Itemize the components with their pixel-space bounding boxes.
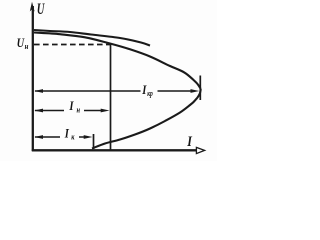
y-axis U <box>32 6 34 151</box>
label Un subscript <box>25 41 29 51</box>
label Un <box>17 36 25 50</box>
svg-text:I: I <box>186 133 192 150</box>
svg-text:U: U <box>37 0 46 17</box>
svg-text:к: к <box>71 133 75 142</box>
svg-text:н: н <box>25 41 29 51</box>
label I (x-axis) <box>186 133 192 150</box>
Ikr left arrowhead <box>34 89 43 93</box>
label Ikr <box>141 83 146 97</box>
label Ikr subscript <box>147 89 153 98</box>
In right arrowhead <box>101 109 110 113</box>
Ik left arrowhead <box>34 135 43 139</box>
svg-text:I: I <box>141 83 146 97</box>
label In subscript <box>77 106 81 115</box>
svg-text:I: I <box>64 127 69 141</box>
main curve lower branch returning to I axis <box>92 89 201 149</box>
label U (y-axis) <box>37 0 46 17</box>
short witness tick at Ik <box>93 134 95 149</box>
x-axis I <box>32 149 196 151</box>
upper curve (comparison characteristic) <box>34 30 150 46</box>
Ikr right arrowhead <box>191 89 200 93</box>
y-axis arrowhead <box>30 2 35 12</box>
Ikr dimension line <box>35 90 141 92</box>
svg-text:U: U <box>17 36 25 50</box>
dashed Un level line <box>34 44 111 46</box>
label In <box>68 99 73 113</box>
label Ik subscript <box>71 133 75 142</box>
x-axis open arrowhead <box>196 147 204 153</box>
svg-text:I: I <box>68 99 73 113</box>
Ik dimension line <box>35 136 60 138</box>
In left arrowhead <box>34 109 43 113</box>
Ik right arrowhead <box>84 135 93 139</box>
main curve upper branch (shunt generator external characteristic) <box>34 33 201 90</box>
vertical witness line at In <box>110 44 112 150</box>
label Ik <box>64 127 69 141</box>
svg-text:кр: кр <box>147 89 153 98</box>
nose witness bar at Ikr <box>199 76 201 101</box>
svg-text:н: н <box>77 106 81 115</box>
In dimension line <box>35 110 64 112</box>
